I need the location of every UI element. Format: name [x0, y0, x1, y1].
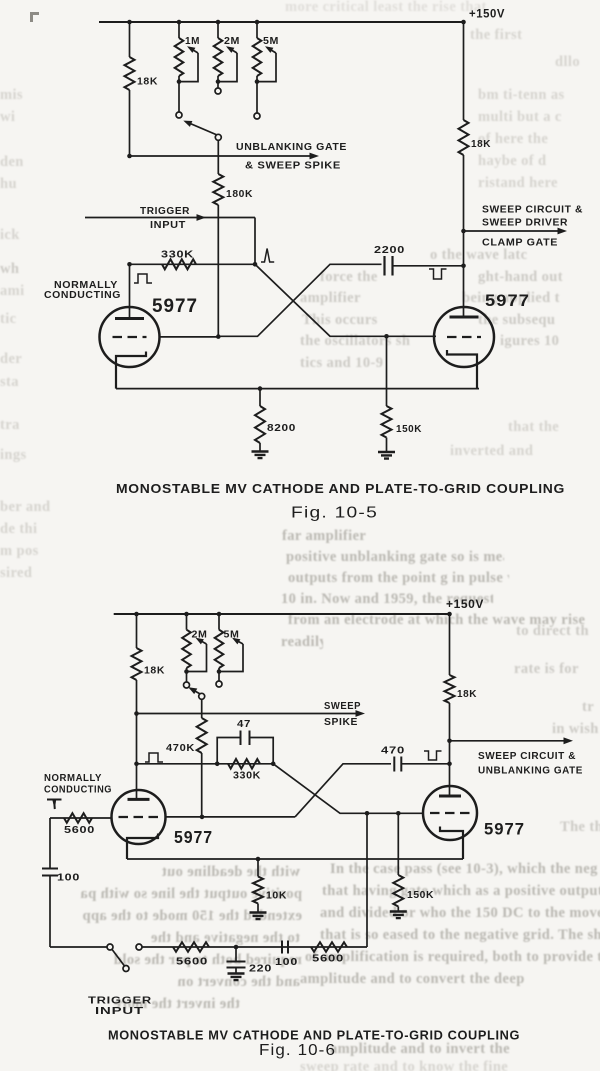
svg-text:SWEEP DRIVER: SWEEP DRIVER: [482, 217, 568, 229]
switch pivot (Fig 10-6): [199, 693, 205, 699]
wire 8200 to ground: [259, 443, 261, 451]
wire 2M wiper loop (Fig 10-6): [187, 644, 207, 672]
wire +150V rail (Fig 10-6): [114, 613, 450, 615]
waveform negative gate: [429, 269, 447, 279]
switch pivot: [215, 134, 221, 140]
wire 150K to ground: [386, 438, 388, 452]
svg-text:5977: 5977: [485, 291, 530, 310]
svg-text:5977: 5977: [484, 820, 525, 839]
capacitor C 100 mid: [282, 941, 288, 954]
node grid V1: [216, 334, 221, 339]
wire 5M to contact: [256, 82, 258, 113]
wire 150K lead (Fig 10-6): [397, 813, 399, 875]
wiper arrow 5M (Fig 10-6): [234, 639, 243, 644]
svg-text:CONDUCTING: CONDUCTING: [44, 785, 112, 796]
selector switch arm (Fig 10-5): [186, 122, 217, 135]
node 330K plate tee: [134, 762, 139, 767]
wire trigger input line: [85, 217, 255, 219]
potentiometer 2M: [217, 22, 219, 38]
resistor R 150K (Fig 10-5): [382, 406, 392, 438]
wire to trigger contact: [50, 946, 107, 948]
svg-text:UNBLANKING GATE: UNBLANKING GATE: [478, 765, 583, 777]
wire 2M to contact: [217, 82, 219, 88]
arrow sweep output (Fig 10-6): [564, 737, 574, 744]
wire right plate branch (Fig 10-6): [449, 614, 451, 675]
wire 5600 corner down: [49, 818, 51, 868]
wire 2M wiper loop: [218, 53, 237, 82]
node rail-1M junction: [177, 20, 182, 25]
wire 18K to sweep node (Fig 10-6): [449, 703, 451, 796]
wire sweep output line (Fig 10-6): [450, 740, 569, 742]
wire 150K to ground (Fig 10-6): [397, 907, 399, 912]
node 330K right junction: [253, 262, 258, 267]
svg-text:+150V: +150V: [469, 7, 505, 21]
capacitor C 220: [227, 962, 246, 968]
ground 8200: [252, 452, 269, 459]
resistor R 330K (Fig 10-6): [228, 759, 260, 769]
ground 150K (Fig 10-6): [390, 912, 407, 919]
wire 180K to grid node: [217, 205, 219, 336]
arrow sweep spike: [356, 710, 366, 717]
svg-text:SWEEP CIRCUIT &: SWEEP CIRCUIT &: [482, 204, 583, 216]
svg-text:5M: 5M: [263, 35, 279, 47]
node 47 cap left: [215, 762, 220, 767]
wire grid V4 to trigger net: [366, 813, 368, 947]
svg-text:TRIGGER: TRIGGER: [140, 205, 190, 217]
node rail-18K left junction: [127, 20, 132, 25]
resistor R 8200: [255, 406, 265, 443]
resistor R 150K (Fig 10-6): [393, 875, 403, 907]
waveform positive gate (Fig 10-6): [145, 753, 163, 762]
svg-text:470K: 470K: [166, 742, 195, 754]
svg-text:NORMALLY: NORMALLY: [44, 773, 102, 784]
wiper arrow 2M: [228, 48, 237, 54]
wire pivot to 180K: [217, 140, 219, 174]
wire 18K to sweep node: [463, 155, 465, 317]
wire pivot to 470K: [201, 699, 203, 718]
resistor R 5600 right: [311, 942, 347, 952]
svg-text:SWEEP: SWEEP: [324, 700, 361, 712]
switch contact trigger: [107, 944, 113, 950]
wire 470K to grid V3: [201, 753, 203, 817]
switch contact 1M: [176, 112, 182, 118]
svg-text:Fig. 10-6: Fig. 10-6: [259, 1042, 336, 1059]
waveform negative gate (Fig 10-6): [424, 751, 442, 760]
tube V2 5977 right (Fig 10-5): [434, 307, 494, 367]
wire 8200 lead: [259, 389, 261, 406]
switch contact 2M (Fig 10-6): [184, 682, 190, 688]
svg-text:100: 100: [57, 872, 80, 884]
svg-text:10K: 10K: [266, 890, 287, 902]
resistor R 180K: [213, 174, 223, 205]
node rail2 right end: [447, 612, 452, 617]
svg-text:150K: 150K: [396, 423, 422, 435]
node rail2-18K junction: [134, 612, 139, 617]
node rail right end junction: [461, 20, 466, 25]
node 47 cap right: [271, 762, 276, 767]
svg-text:2200: 2200: [374, 244, 405, 256]
tube V4 5977 right (Fig 10-6): [423, 786, 477, 840]
arrow trigger input: [197, 214, 207, 221]
wire 5M wiper loop: [257, 53, 276, 82]
resistor R 10K: [253, 877, 263, 904]
wiper arrow 2M (Fig 10-6): [198, 639, 207, 644]
svg-text:180K: 180K: [226, 188, 253, 200]
resistor R 330K (Fig 10-5): [162, 259, 196, 269]
svg-text:CONDUCTING: CONDUCTING: [44, 290, 121, 301]
wire crossover grid V3 up: [295, 764, 391, 817]
wire cathode bus (Fig 10-5): [116, 388, 479, 390]
svg-text:5600: 5600: [312, 953, 344, 965]
resistor R 5600 mid: [173, 942, 209, 952]
node cathode-8200 junction: [258, 386, 263, 391]
resistor R 5600 left: [64, 813, 92, 823]
wire grid V1 to node: [160, 336, 219, 338]
wire crossover plate to grid V2: [255, 264, 436, 336]
node 2M bottom (Fig 10-6): [184, 669, 189, 674]
svg-text:8200: 8200: [267, 422, 296, 434]
wiper arrow 5M: [267, 48, 276, 54]
svg-text:18K: 18K: [137, 76, 158, 88]
potentiometer 5M (Fig 10-6): [218, 614, 220, 630]
node rail-5M junction: [255, 20, 260, 25]
capacitor C 2200: [385, 256, 393, 276]
wire +150V top rail (Fig 10-5): [99, 21, 464, 23]
svg-text:5600: 5600: [176, 956, 208, 968]
wire 5M to contact (Fig 10-6): [218, 672, 220, 682]
wire grid V3 to corner: [166, 816, 296, 818]
node cathode-10K junction: [256, 857, 261, 862]
svg-text:100: 100: [275, 957, 298, 968]
node unblanking tee: [127, 154, 132, 159]
wire left plate lead: [129, 264, 131, 318]
ground 220: [228, 974, 245, 981]
tube V1 5977 left (Fig 10-5): [100, 307, 160, 367]
svg-text:& SWEEP SPIKE: & SWEEP SPIKE: [245, 160, 341, 172]
svg-text:47: 47: [237, 718, 251, 730]
wire left plate lead (Fig 10-6): [136, 714, 138, 800]
arrow unblanking gate: [310, 153, 320, 160]
waveform positive gate left: [134, 274, 152, 283]
wire crossover grid V1 up: [218, 264, 381, 336]
svg-text:330K: 330K: [233, 770, 261, 782]
svg-text:330K: 330K: [161, 249, 194, 261]
node 5M bottom (Fig 10-6): [217, 669, 222, 674]
ground 150K (Fig 10-5): [378, 452, 395, 459]
switch contact 5M (Fig 10-6): [216, 681, 222, 687]
wire sweep output arrow line: [464, 230, 563, 232]
svg-text:+150V: +150V: [446, 597, 484, 611]
node sweep output: [461, 229, 466, 234]
svg-text:470: 470: [381, 745, 405, 757]
wire 150K lead (Fig 10-5): [386, 336, 388, 406]
switch contact trigger right: [136, 944, 142, 950]
node sweep output (Fig 10-6): [447, 739, 452, 744]
wire 220 lead: [235, 947, 237, 962]
node grid V4 150K junction: [396, 811, 401, 816]
wire 10K lead: [257, 859, 259, 877]
wire 10K to ground: [257, 904, 259, 913]
switch contact 5M: [254, 113, 260, 119]
switch pivot trigger: [123, 966, 129, 972]
wiper arrow 1M: [189, 48, 198, 54]
wire 18K to unblanking node: [129, 90, 131, 156]
trigger switch arm (Fig 10-6): [112, 950, 124, 966]
wire trigger chain line: [141, 946, 367, 948]
wire cap to right plate: [393, 265, 464, 267]
node rail2-5M junction: [217, 612, 222, 617]
tube V3 5977 left (Fig 10-6): [112, 790, 166, 844]
node grid V3 470K junction: [200, 815, 205, 820]
svg-text:18K: 18K: [471, 138, 491, 150]
svg-text:5600: 5600: [64, 824, 95, 836]
wire left plate branch upper: [129, 22, 131, 57]
wire 2M to contact (Fig 10-6): [186, 672, 188, 683]
node sweep spike tee: [134, 711, 139, 716]
svg-text:Fig. 10-5: Fig. 10-5: [291, 505, 378, 522]
wire 5M wiper loop (Fig 10-6): [219, 644, 243, 672]
capacitor C 47 bypass: [217, 738, 273, 764]
potentiometer 2M (Fig 10-6): [186, 614, 188, 630]
wire cathode bus (Fig 10-6): [127, 858, 463, 860]
resistor R 18K right (Fig 10-6): [445, 675, 455, 703]
resistor R 18K left (Fig 10-6): [132, 648, 142, 680]
switch contact 2M: [215, 88, 221, 94]
wire unblanking gate line: [130, 155, 315, 157]
selector switch arm (Fig 10-6): [190, 688, 200, 694]
svg-text:5977: 5977: [152, 296, 198, 317]
arrow sweep output: [558, 228, 568, 235]
scan artifact top-left mark: [30, 12, 39, 22]
waveform negative spike marker: [47, 800, 62, 810]
wire 330K plate line (Fig 10-6): [137, 763, 274, 765]
capacitor C 470: [394, 757, 401, 772]
svg-text:INPUT: INPUT: [150, 219, 186, 231]
svg-text:1M: 1M: [185, 35, 200, 47]
potentiometer 1M: [178, 22, 180, 38]
wire 5600 grid-left line: [50, 817, 112, 819]
svg-text:MONOSTABLE MV CATHODE AND PLAT: MONOSTABLE MV CATHODE AND PLATE-TO-GRID …: [108, 1029, 520, 1043]
ground 10K: [250, 913, 267, 920]
node grid V4 trigger junction: [365, 811, 370, 816]
svg-text:220: 220: [249, 963, 272, 975]
svg-text:MONOSTABLE MV CATHODE AND PLAT: MONOSTABLE MV CATHODE AND PLATE-TO-GRID …: [116, 482, 565, 496]
node 1M bottom: [177, 79, 182, 84]
svg-text:2M: 2M: [224, 35, 240, 47]
waveform positive spike: [261, 249, 274, 263]
wire 330K node line: [130, 263, 256, 265]
svg-text:150K: 150K: [407, 889, 434, 901]
wire left plate branch (Fig 10-6): [136, 614, 138, 648]
svg-text:5977: 5977: [174, 827, 213, 847]
capacitor C 100 left: [42, 869, 58, 876]
node rail2-2M junction: [184, 612, 189, 617]
potentiometer 5M: [256, 22, 258, 38]
resistor R 18K left (Fig 10-5): [125, 57, 135, 90]
node grid V2 junction: [384, 334, 389, 339]
svg-text:UNBLANKING GATE: UNBLANKING GATE: [236, 141, 347, 153]
wire sweep spike line: [137, 713, 361, 715]
wire 470 cap to right plate: [401, 763, 449, 765]
wire 18K to sweep tee: [136, 680, 138, 714]
resistor R 18K right (Fig 10-5): [459, 120, 469, 155]
node 470 tee: [447, 762, 452, 767]
wire 1M wiper loop: [179, 53, 198, 82]
node 2200 tee: [461, 264, 466, 269]
wire 1M to contact: [178, 82, 180, 112]
wire right plate branch: [463, 22, 465, 120]
wire crossover plate to grid V4: [273, 764, 424, 814]
svg-text:SPIKE: SPIKE: [324, 716, 358, 728]
node left plate junction: [127, 262, 132, 267]
svg-text:CLAMP GATE: CLAMP GATE: [482, 237, 558, 249]
svg-text:INPUT: INPUT: [95, 1005, 144, 1017]
node rail-2M junction: [216, 20, 221, 25]
node 2M bottom: [216, 79, 221, 84]
resistor R 470K: [197, 718, 207, 753]
svg-text:SWEEP CIRCUIT &: SWEEP CIRCUIT &: [478, 750, 576, 762]
node 220 junction: [234, 945, 239, 950]
wire trigger corner down: [254, 218, 256, 265]
svg-text:18K: 18K: [144, 665, 165, 677]
node 5M bottom: [255, 79, 260, 84]
svg-text:18K: 18K: [457, 688, 477, 700]
